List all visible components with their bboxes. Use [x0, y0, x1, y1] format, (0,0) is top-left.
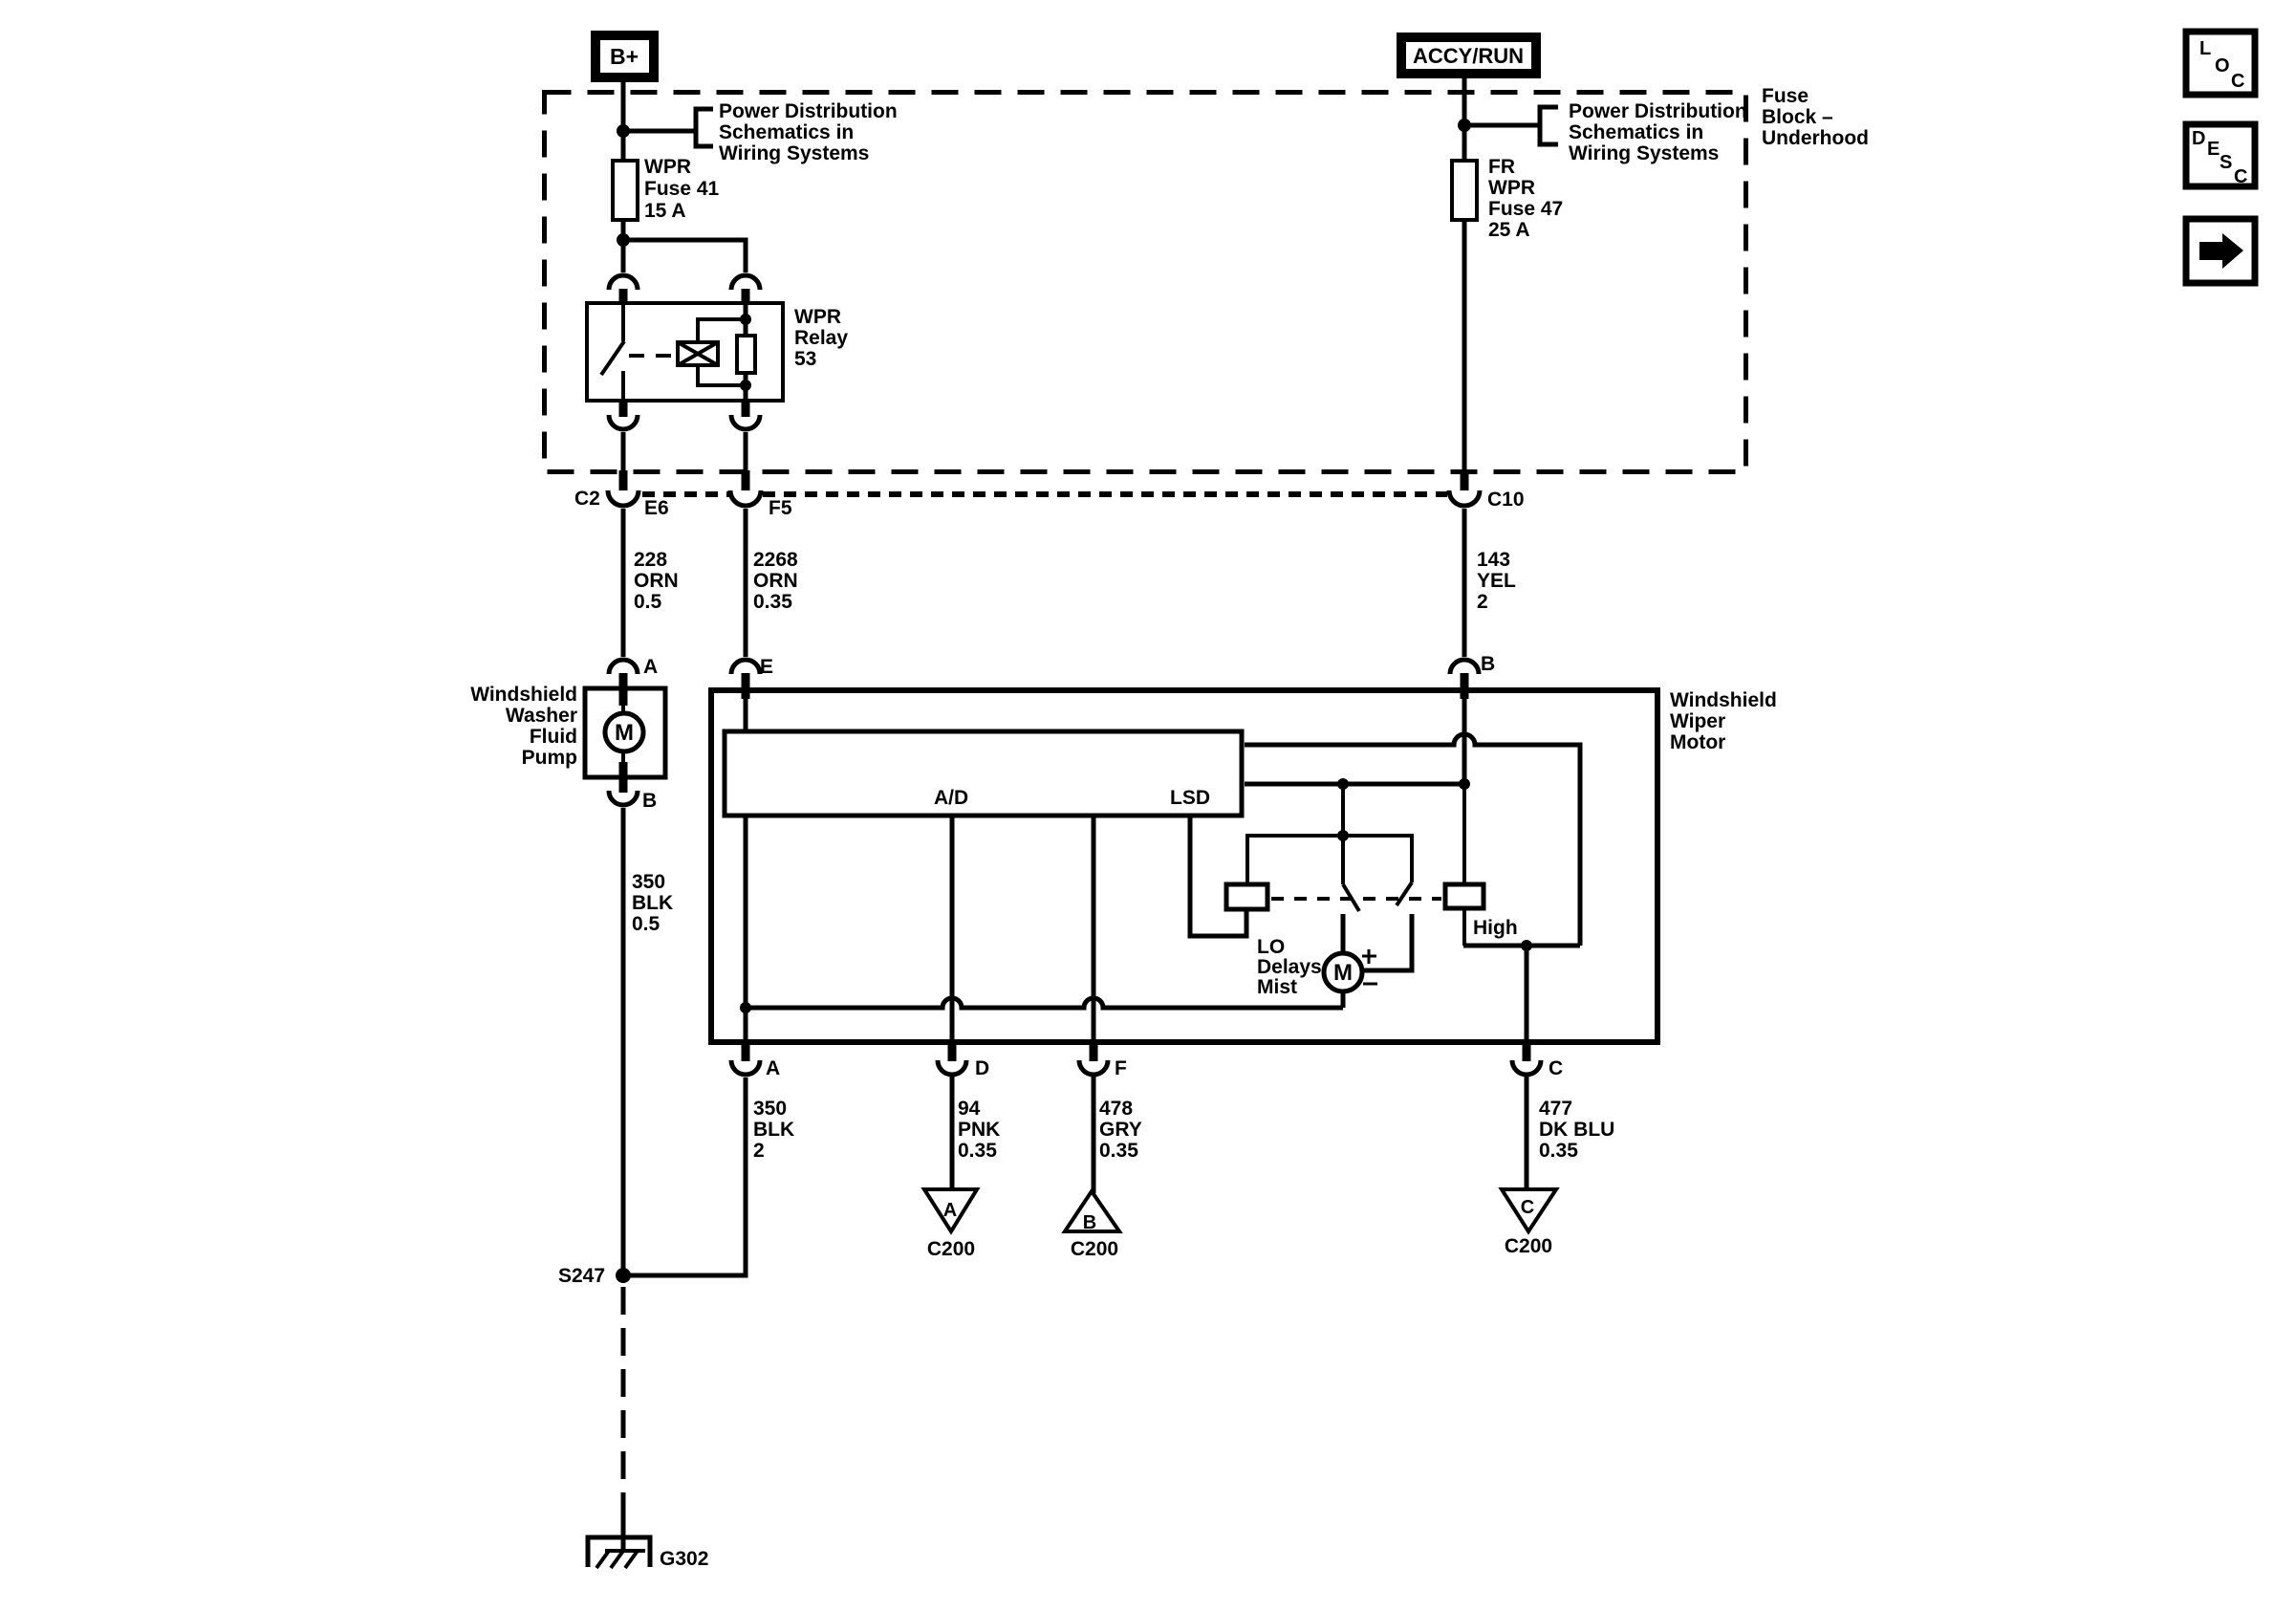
connector socket into relay (left pin 1): [609, 275, 638, 303]
label: WPR Relay 53: [794, 306, 848, 370]
wire 94 PNK 0.35: [950, 1077, 955, 1189]
svg-text:BLK: BLK: [753, 1119, 794, 1141]
wire: junction branch to relay coil side: [623, 240, 746, 272]
svg-text:228: 228: [634, 549, 667, 571]
wire: motor minus to ground bus: [1341, 991, 1346, 1008]
connector pin B out of washer pump: [609, 762, 638, 805]
svg-text:GRY: GRY: [1099, 1119, 1142, 1141]
wire: pin E into module: [744, 690, 748, 729]
svg-text:0.5: 0.5: [632, 913, 661, 935]
wiper motor M: [1324, 953, 1362, 991]
svg-text:ACCY/RUN: ACCY/RUN: [1413, 44, 1524, 68]
svg-text:0.35: 0.35: [753, 591, 792, 613]
svg-text:53: 53: [794, 348, 816, 370]
fuse WPR Fuse 41 15 A: [613, 156, 720, 222]
svg-text:C10: C10: [1487, 489, 1525, 511]
wire stub through fuse block edge (mid): [742, 470, 750, 490]
wire: fuse 47 down to fuse block edge: [1462, 220, 1467, 472]
svg-text:F5: F5: [769, 497, 792, 519]
svg-text:Wiring Systems: Wiring Systems: [1569, 142, 1719, 164]
svg-text:B+: B+: [610, 44, 639, 69]
svg-text:A: A: [943, 1200, 957, 1221]
off-page triangle B (C200): [1065, 1191, 1119, 1233]
svg-text:Washer: Washer: [506, 705, 577, 727]
svg-text:Wiring Systems: Wiring Systems: [719, 142, 869, 164]
connector C2 terminal E6: [608, 490, 639, 506]
svg-text:ORN: ORN: [634, 570, 679, 592]
wire: pump motor to pin B: [621, 751, 625, 764]
wire (dashed) S247 to G302: [621, 1287, 626, 1519]
node: junction at Power Distribution tap (right): [1458, 119, 1471, 132]
svg-text:M: M: [1333, 960, 1353, 986]
wiper motor control module box: [725, 731, 1242, 816]
relay coil (crossed box): [678, 319, 746, 385]
svg-text:WPR: WPR: [794, 306, 841, 328]
svg-text:L: L: [2199, 38, 2211, 59]
svg-text:A: A: [643, 656, 658, 678]
svg-text:15 A: 15 A: [644, 200, 686, 222]
windshield washer fluid pump box: [585, 688, 665, 777]
wire: junction down to relay switch side: [621, 240, 626, 272]
node: junction pin B / module output: [1459, 778, 1470, 790]
off-page triangle C (C200): [1502, 1189, 1556, 1231]
wire: High coil to C output: [1462, 908, 1466, 946]
label: 228 ORN 0.5: [634, 549, 679, 613]
svg-text:0.5: 0.5: [634, 591, 662, 613]
node: junction below fuse 41: [617, 233, 630, 247]
pump motor M: [605, 713, 643, 751]
svg-text:Mist: Mist: [1257, 976, 1297, 998]
svg-text:Fuse: Fuse: [1762, 85, 1809, 107]
svg-text:O: O: [2215, 55, 2230, 76]
svg-text:S: S: [2220, 152, 2232, 173]
svg-text:Windshield: Windshield: [1670, 689, 1777, 711]
label: LO Delays Mist: [1257, 936, 1322, 998]
svg-text:Underhood: Underhood: [1762, 127, 1869, 149]
relay linkage (dashed, inside relay): [629, 354, 676, 358]
wire 2268 ORN 0.35: [744, 509, 748, 657]
label: Power Distribution Schematics in Wiring Systems (left): [719, 100, 898, 164]
svg-text:Delays: Delays: [1257, 956, 1322, 978]
wire stub into ground: [621, 1519, 626, 1551]
svg-text:E: E: [2207, 139, 2220, 160]
svg-text:Windshield: Windshield: [470, 684, 577, 706]
ground G302: [588, 1537, 650, 1568]
svg-text:WPR: WPR: [1488, 177, 1535, 199]
High relay coil: [1445, 884, 1484, 908]
node: junction A / ground bus: [740, 1002, 751, 1013]
wire 477 DK BLU 0.35: [1525, 1077, 1529, 1189]
wire: pin B down into module area: [1462, 690, 1467, 784]
wire stub through fuse block edge (left): [619, 470, 628, 490]
svg-text:350: 350: [753, 1098, 787, 1120]
node: junction on loop at LO switch: [1337, 830, 1349, 841]
linkage (dashed) coil to switches: [1271, 897, 1441, 901]
label: 350 BLK 0.5: [632, 871, 673, 935]
svg-text:S247: S247: [558, 1265, 605, 1287]
svg-text:B: B: [642, 790, 657, 812]
wire: ground bus pin A to motor (with hops over D and F): [746, 998, 1343, 1008]
connector pin D out of wiper motor: [938, 1042, 966, 1075]
reference bracket (left): [696, 109, 713, 146]
svg-text:Fluid: Fluid: [530, 726, 577, 748]
HIGH switch contact: [1361, 882, 1412, 970]
svg-text:D: D: [2192, 128, 2205, 149]
svg-text:FR: FR: [1488, 156, 1515, 178]
wire stub through fuse block edge (right): [1461, 470, 1469, 490]
connector socket out of relay (right pin 5): [731, 401, 760, 429]
svg-text:D: D: [975, 1057, 989, 1079]
connector socket into relay (right pin 2): [731, 275, 760, 303]
label: Windshield Wiper Motor: [1670, 689, 1777, 753]
label: 477 DK BLU 0.35: [1539, 1098, 1614, 1162]
wire: module pin to A output: [744, 817, 748, 1042]
power feed terminal B+: [596, 35, 654, 77]
connector pin A into washer pump: [609, 660, 638, 706]
wire 478 GRY 0.35: [1092, 1077, 1096, 1193]
wire 350 BLK 2 pin A to S247: [623, 1078, 746, 1275]
wire: LSD output to LO coil: [1190, 817, 1246, 936]
svg-text:350: 350: [632, 871, 665, 893]
power feed terminal ACCY/RUN: [1401, 37, 1536, 74]
svg-text:0.35: 0.35: [958, 1140, 997, 1162]
svg-text:25 A: 25 A: [1488, 219, 1530, 241]
svg-text:B: B: [1083, 1212, 1096, 1233]
svg-text:C2: C2: [574, 488, 600, 510]
svg-text:Power Distribution: Power Distribution: [719, 100, 898, 122]
node: junction to pin C: [1521, 940, 1532, 951]
relay suppression resistor: [737, 336, 755, 373]
connector socket out of relay (left pin 3): [609, 401, 638, 429]
label: 143 YEL 2: [1477, 549, 1516, 613]
svg-text:Block –: Block –: [1762, 106, 1833, 128]
svg-text:High: High: [1473, 917, 1518, 939]
svg-text:C: C: [1521, 1197, 1534, 1218]
svg-text:B: B: [1481, 653, 1495, 675]
label: 350 BLK 2: [753, 1098, 794, 1162]
svg-text:Fuse 47: Fuse 47: [1488, 198, 1563, 220]
svg-text:Schematics in: Schematics in: [1569, 121, 1703, 143]
svg-text:LO: LO: [1257, 936, 1285, 958]
svg-text:E: E: [760, 656, 773, 678]
wire: bottom link High coil to high-speed feed: [1463, 944, 1580, 948]
wire: relay pin5 down to fuse block edge: [744, 432, 748, 472]
wire: module to F output: [1092, 817, 1096, 1042]
node: junction module output / LO switch feed: [1337, 778, 1349, 790]
svg-text:Pump: Pump: [522, 747, 577, 769]
relay switch contact (inside relay): [601, 303, 624, 401]
svg-text:C200: C200: [1505, 1235, 1552, 1257]
svg-text:YEL: YEL: [1477, 570, 1516, 592]
svg-text:Relay: Relay: [794, 327, 848, 349]
wire 350 BLK 0.5 pump to S247: [621, 808, 626, 1275]
connector pin C out of wiper motor: [1512, 1042, 1541, 1075]
reference bracket (right): [1540, 107, 1558, 144]
wire: node down to High coil: [1462, 784, 1466, 884]
wire: tap to reference bracket (left): [623, 129, 696, 134]
wire: ACCY/RUN down to fuse 47: [1462, 78, 1467, 161]
label: 94 PNK 0.35: [958, 1098, 1000, 1162]
svg-text:Fuse 41: Fuse 41: [644, 178, 720, 200]
connector pin A out of wiper motor: [731, 1042, 760, 1075]
label: Power Distribution Schematics in Wiring Systems (right): [1569, 100, 1747, 164]
svg-text:Schematics in: Schematics in: [719, 121, 854, 143]
connector C2 terminal F5: [730, 490, 761, 506]
wire: module output down to LO switch: [1341, 784, 1345, 884]
svg-text:DK BLU: DK BLU: [1539, 1119, 1614, 1141]
label: Windshield Washer Fluid Pump: [470, 684, 577, 769]
wire 228 ORN 0.5: [621, 509, 626, 657]
svg-text:C: C: [2234, 166, 2247, 187]
svg-text:A: A: [766, 1057, 780, 1079]
svg-text:E6: E6: [644, 497, 669, 519]
connector line C2 (dotted): [642, 491, 1447, 497]
fuse FR WPR Fuse 47 25 A: [1452, 156, 1563, 241]
svg-text:C200: C200: [927, 1238, 975, 1260]
motor polarity -: [1363, 983, 1377, 986]
connector pin F out of wiper motor: [1079, 1042, 1108, 1075]
fuse block border (dashed), Fuse Block - Underhood: [545, 93, 1746, 472]
wire 143 YEL 2: [1462, 509, 1467, 657]
arrow navigation box: [2186, 219, 2255, 283]
off-page triangle A (C200): [924, 1189, 977, 1231]
LO switch contact: [1343, 884, 1359, 953]
wire: relay pin3 down to fuse block edge: [621, 432, 626, 472]
node: splice S247: [616, 1268, 631, 1283]
svg-text:2: 2: [753, 1140, 765, 1162]
node: relay coil bottom junction: [740, 380, 751, 391]
svg-text:143: 143: [1477, 549, 1510, 571]
svg-text:Motor: Motor: [1670, 731, 1725, 753]
svg-text:A/D: A/D: [934, 787, 968, 809]
svg-text:Wiper: Wiper: [1670, 710, 1725, 732]
node: relay coil top junction: [740, 314, 751, 325]
wire: junction down to C output: [1525, 946, 1529, 1042]
svg-text:M: M: [615, 720, 634, 746]
label: Fuse Block - Underhood: [1762, 85, 1869, 149]
wire: switch feed loop top: [1247, 836, 1412, 884]
svg-text:C200: C200: [1071, 1238, 1118, 1260]
connector pin B into wiper motor: [1450, 660, 1479, 699]
svg-text:94: 94: [958, 1098, 981, 1120]
svg-text:0.35: 0.35: [1099, 1140, 1138, 1162]
relay U53 box WPR Relay 53: [587, 303, 783, 401]
svg-text:478: 478: [1099, 1098, 1133, 1120]
LOC navigation box: [2186, 32, 2255, 95]
wire: pump pin A to motor: [621, 704, 625, 713]
svg-text:LSD: LSD: [1170, 787, 1210, 809]
wire: module second output to pin B node: [1245, 782, 1464, 787]
motor polarity +: [1362, 949, 1376, 964]
svg-text:F: F: [1115, 1057, 1127, 1079]
svg-text:C: C: [1549, 1057, 1563, 1079]
svg-text:PNK: PNK: [958, 1119, 1000, 1141]
svg-text:2: 2: [1477, 591, 1488, 613]
connector C10 terminal: [1449, 490, 1480, 506]
svg-text:G302: G302: [660, 1548, 708, 1570]
connector pin E into wiper motor: [731, 660, 760, 699]
DESC navigation box: [2186, 124, 2255, 187]
node: junction at Power Distribution tap (left): [617, 124, 630, 138]
wire: tap to reference bracket (right): [1464, 123, 1540, 128]
svg-text:2268: 2268: [753, 549, 798, 571]
svg-text:Power Distribution: Power Distribution: [1569, 100, 1747, 122]
svg-text:0.35: 0.35: [1539, 1140, 1578, 1162]
svg-text:C: C: [2231, 71, 2244, 92]
label: 478 GRY 0.35: [1099, 1098, 1142, 1162]
label: 2268 ORN 0.35: [753, 549, 798, 613]
svg-text:477: 477: [1539, 1098, 1572, 1120]
svg-text:WPR: WPR: [644, 156, 691, 178]
wire: B+ down to fuse 41: [621, 82, 626, 161]
wire: module to high-speed feed (top horizontal with hop): [1245, 734, 1580, 946]
LO relay coil: [1226, 884, 1267, 909]
windshield wiper motor box: [711, 690, 1657, 1042]
wire: module to D output: [950, 817, 955, 1042]
wire: fuse 41 to junction: [621, 220, 626, 240]
wire: relay pin2 vertical: [744, 303, 748, 401]
svg-text:BLK: BLK: [632, 892, 673, 914]
svg-text:ORN: ORN: [753, 570, 798, 592]
